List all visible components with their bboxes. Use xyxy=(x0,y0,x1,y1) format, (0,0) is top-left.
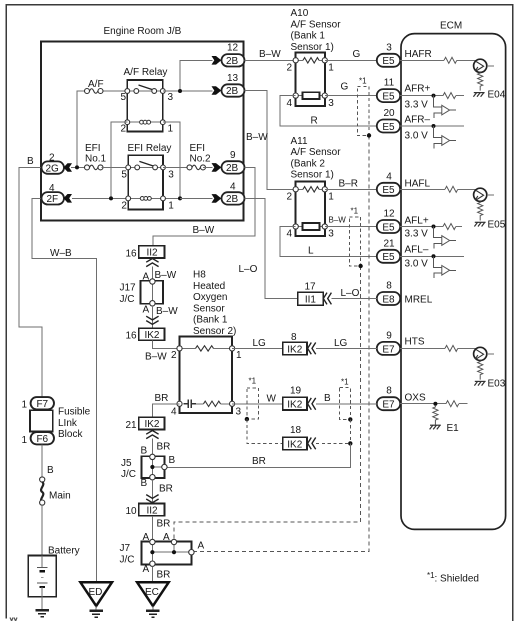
svg-text:*1: *1 xyxy=(249,377,257,386)
pin E5-3 HAFR xyxy=(377,42,400,67)
svg-text:IK2: IK2 xyxy=(287,400,302,411)
wire L-O II1 to E8 xyxy=(332,298,377,300)
chevrons II1 (left) xyxy=(323,293,331,305)
svg-text:10: 10 xyxy=(126,506,138,517)
wire G A10 pin1 to HAFR xyxy=(325,59,377,61)
resistor AFR+ xyxy=(443,93,456,99)
shield dashed IK2-18 to drain xyxy=(316,442,350,444)
svg-text:AFL+: AFL+ xyxy=(405,216,429,227)
resistor to E03 xyxy=(478,361,483,380)
pin E8-8 MREL xyxy=(377,281,400,306)
svg-text:Sensor: Sensor xyxy=(193,303,225,314)
label Fusible Link Block xyxy=(58,407,91,441)
svg-text:3: 3 xyxy=(328,98,334,109)
ground triangle ED xyxy=(80,582,112,606)
svg-text:AFL–: AFL– xyxy=(405,245,429,256)
wire J7 to EC xyxy=(151,566,153,582)
wire EFI row to 2B4 xyxy=(180,197,213,199)
comparator AFL- xyxy=(434,256,457,278)
svg-text:L: L xyxy=(308,246,314,257)
pin E5-12 AFL+ xyxy=(377,209,400,234)
svg-text:L–O: L–O xyxy=(239,264,258,275)
connector IK2-8 xyxy=(283,342,307,355)
svg-text:BR: BR xyxy=(157,519,171,530)
svg-text:W–B: W–B xyxy=(50,248,72,259)
svg-text:E5: E5 xyxy=(382,56,395,67)
svg-text:4: 4 xyxy=(287,229,293,240)
wire HTS internal xyxy=(400,347,476,349)
svg-text:1: 1 xyxy=(236,350,242,361)
svg-text:BR: BR xyxy=(155,393,169,404)
svg-text:20: 20 xyxy=(383,108,395,119)
wire L A11 pin4 to AFL- xyxy=(280,227,376,257)
svg-text:3.0 V: 3.0 V xyxy=(405,131,429,142)
A/F sensor A11 box xyxy=(296,182,325,236)
battery xyxy=(28,556,56,597)
svg-text:B–W: B–W xyxy=(145,352,167,363)
svg-text:II2: II2 xyxy=(146,248,158,259)
svg-text:8: 8 xyxy=(386,386,392,397)
svg-text:4: 4 xyxy=(386,171,392,182)
shield dot OXS-3 xyxy=(348,441,352,445)
svg-text:II2: II2 xyxy=(146,505,158,516)
junction dot xyxy=(178,89,182,93)
label J7 J/C xyxy=(120,543,135,565)
wire J17 to IK2-16 xyxy=(151,306,153,328)
svg-text:5: 5 xyxy=(121,92,127,103)
connector IK2-19 xyxy=(283,397,307,410)
svg-text:18: 18 xyxy=(290,425,302,436)
svg-text:Main: Main xyxy=(49,491,71,502)
wire L-O 2B4 to II1 xyxy=(245,198,298,298)
svg-text:LG: LG xyxy=(253,338,267,349)
fuse EFI No.1 xyxy=(85,165,104,170)
chevrons below IK2-21 (up) xyxy=(146,431,158,439)
svg-text:3: 3 xyxy=(168,92,174,103)
svg-text:A/F: A/F xyxy=(88,79,104,90)
svg-text:12: 12 xyxy=(383,209,395,220)
A11 sensor element xyxy=(303,223,320,230)
svg-text:1: 1 xyxy=(328,62,334,73)
ground E05 xyxy=(474,222,485,226)
svg-text:5: 5 xyxy=(121,170,127,181)
svg-text:3: 3 xyxy=(168,170,174,181)
svg-text:B–W: B–W xyxy=(246,132,268,143)
svg-text:Fusible: Fusible xyxy=(58,407,91,418)
svg-text:IK2: IK2 xyxy=(287,439,302,450)
svg-text:Sensor 2): Sensor 2) xyxy=(193,326,236,337)
fusible link block body xyxy=(30,410,53,431)
A11 pin circles xyxy=(293,187,327,229)
svg-text:E1: E1 xyxy=(447,423,460,434)
ground E03 xyxy=(474,381,485,385)
chevrons IK2-19 (left) xyxy=(308,398,316,410)
connector 2F xyxy=(42,192,73,205)
wire IK2-21 to J5 xyxy=(151,439,153,457)
wire AFL+ internal xyxy=(400,226,462,228)
svg-text:9: 9 xyxy=(386,330,392,341)
svg-text:4: 4 xyxy=(171,406,177,417)
svg-text:(Bank 1: (Bank 1 xyxy=(193,315,228,326)
svg-text:16: 16 xyxy=(126,248,138,259)
wire branch up to 2B12 xyxy=(180,60,213,91)
svg-text:Engine Room J/B: Engine Room J/B xyxy=(104,26,182,37)
pin E7-9 HTS xyxy=(377,330,400,355)
svg-text:BR: BR xyxy=(157,442,171,453)
svg-text:ED: ED xyxy=(89,587,103,598)
svg-text:1: 1 xyxy=(22,400,28,411)
svg-text:J/C: J/C xyxy=(120,294,135,305)
svg-text:A: A xyxy=(198,541,205,552)
H8 internal wires xyxy=(180,348,233,403)
svg-text:BR: BR xyxy=(159,484,173,495)
wire IK2-16 to H8 pin2 xyxy=(152,340,179,348)
wire G A10 pin3 to AFR+ xyxy=(325,95,377,97)
svg-text:BR: BR xyxy=(252,456,266,467)
svg-text:H8: H8 xyxy=(193,270,206,281)
wire relay A/F pin1 down xyxy=(163,122,180,198)
wire W-B from 2F to ED ground xyxy=(32,198,96,582)
svg-text:B: B xyxy=(47,465,54,476)
label J5 J/C xyxy=(121,458,136,480)
svg-text:3: 3 xyxy=(236,406,242,417)
svg-text:BR: BR xyxy=(157,570,171,581)
svg-text:2B: 2B xyxy=(226,163,239,174)
svg-text:B–W: B–W xyxy=(329,216,347,225)
comparator AFR- xyxy=(434,126,457,148)
wire F6 to Main xyxy=(41,444,43,477)
svg-text:E05: E05 xyxy=(488,219,506,230)
svg-text:B–W: B–W xyxy=(193,225,215,236)
H8 element resistor xyxy=(204,401,221,406)
ground (EC) xyxy=(146,611,160,617)
svg-text:J/C: J/C xyxy=(121,469,136,480)
svg-text:F6: F6 xyxy=(36,434,48,445)
svg-text:3.3 V: 3.3 V xyxy=(405,100,429,111)
pin E5-4 HAFL xyxy=(377,171,400,196)
connector mate chevrons (up) xyxy=(146,259,158,267)
wire II2-10 to J7 xyxy=(151,516,153,542)
svg-text:No.1: No.1 xyxy=(85,154,107,165)
svg-text:3.3 V: 3.3 V xyxy=(405,229,429,240)
svg-text:: Shielded: : Shielded xyxy=(435,574,479,585)
svg-text:A/F Relay: A/F Relay xyxy=(124,67,168,78)
svg-text:B: B xyxy=(324,393,331,404)
connector 2B 13 xyxy=(212,84,245,97)
svg-text:E5: E5 xyxy=(382,185,395,196)
wire B-W 2B13 to A11 pin2 xyxy=(245,91,296,190)
ground triangle EC xyxy=(137,582,169,606)
fuse A/F xyxy=(85,89,104,94)
svg-text:21: 21 xyxy=(126,420,138,431)
svg-text:B: B xyxy=(141,478,148,489)
connector II1-17 xyxy=(298,292,324,306)
svg-text:No.2: No.2 xyxy=(190,154,212,165)
connector 2B 9 xyxy=(212,161,245,174)
svg-text:11: 11 xyxy=(384,78,395,89)
svg-text:13: 13 xyxy=(227,73,239,84)
svg-text:Heated: Heated xyxy=(193,281,225,292)
svg-text:A11: A11 xyxy=(291,136,308,147)
svg-text:Block: Block xyxy=(58,429,83,440)
shield box OXS-1 (*1) xyxy=(247,388,259,419)
pin E5-20 AFR- xyxy=(377,108,400,133)
H8 pin numbers xyxy=(171,350,242,418)
wire B IK2-19 to E7 xyxy=(316,403,377,405)
svg-text:E7: E7 xyxy=(382,400,395,411)
svg-text:IK2: IK2 xyxy=(287,344,302,355)
svg-text:HTS: HTS xyxy=(405,337,425,348)
ground E04 xyxy=(473,93,484,97)
svg-text:B–W: B–W xyxy=(259,49,281,60)
wire relay A/F pin2 down xyxy=(111,122,127,198)
relay EFI coil row xyxy=(111,196,180,201)
svg-text:IK2: IK2 xyxy=(144,419,159,430)
svg-text:J5: J5 xyxy=(121,458,132,469)
junction dot left xyxy=(109,196,113,200)
svg-text:2: 2 xyxy=(287,191,293,202)
ground (battery) xyxy=(35,610,49,616)
H8 heater resistor xyxy=(196,346,214,351)
relay A/F coil row xyxy=(125,120,165,125)
svg-text:B: B xyxy=(141,446,148,457)
resistor OXS xyxy=(446,401,459,407)
svg-text:E7: E7 xyxy=(382,344,395,355)
connector IK2-18 xyxy=(283,437,307,450)
svg-text:F7: F7 xyxy=(36,399,48,410)
wire B from 2G to fusible link xyxy=(19,168,42,398)
svg-text:2B: 2B xyxy=(226,194,239,205)
wire BR H8 pin4 to IK2-21 xyxy=(152,404,179,418)
wire II2 to J17 xyxy=(151,267,153,281)
ground (ED) xyxy=(89,611,103,617)
shield dashed between dots xyxy=(349,419,351,443)
wire W H8 pin3 to IK2-19 xyxy=(232,403,283,405)
pin E5-11 AFR+ xyxy=(377,78,400,103)
connector 2B 12 xyxy=(212,54,245,67)
connector IK2-21 xyxy=(139,417,165,430)
svg-text:E8: E8 xyxy=(382,294,395,305)
svg-text:J17: J17 xyxy=(120,283,137,294)
shield box A10 (*1) xyxy=(358,86,370,135)
relay A/F box xyxy=(127,80,163,132)
wire fuse to EFI relay pin5 xyxy=(102,166,129,168)
resistor to E04 xyxy=(478,72,483,90)
svg-text:2G: 2G xyxy=(46,163,60,174)
wire ED to ground xyxy=(95,606,97,610)
svg-text:EFI: EFI xyxy=(85,143,101,154)
H8 label xyxy=(193,270,236,338)
wire HAFL internal xyxy=(400,188,476,190)
svg-text:B–W: B–W xyxy=(155,270,177,281)
svg-text:2: 2 xyxy=(121,124,127,135)
fusible link block F6 xyxy=(31,432,54,445)
svg-text:9: 9 xyxy=(230,150,236,161)
svg-text:E5: E5 xyxy=(382,252,395,263)
svg-text:IK2: IK2 xyxy=(144,330,159,341)
fusible link Main xyxy=(40,477,45,505)
svg-text:LG: LG xyxy=(334,338,348,349)
junction dot AFR+ xyxy=(432,94,436,98)
svg-text:A: A xyxy=(143,305,150,316)
chevrons IK2-18 (left) xyxy=(308,438,316,450)
svg-text:A10: A10 xyxy=(291,8,309,19)
svg-text:*1: *1 xyxy=(341,378,349,387)
wire EC to ground xyxy=(152,606,154,610)
wire Main to battery xyxy=(41,505,43,555)
svg-text:W: W xyxy=(267,394,277,405)
ECM box xyxy=(401,34,506,530)
svg-text:(Bank 1: (Bank 1 xyxy=(291,31,326,42)
svg-text:16: 16 xyxy=(126,331,138,342)
wire AFR+ internal xyxy=(400,95,464,97)
svg-text:II1: II1 xyxy=(305,295,317,306)
svg-text:B: B xyxy=(27,156,34,167)
svg-text:17: 17 xyxy=(305,282,317,293)
svg-text:Oxygen: Oxygen xyxy=(193,292,227,303)
svg-text:L–O: L–O xyxy=(341,288,360,299)
A10 label xyxy=(291,8,342,53)
A11 label xyxy=(291,136,342,181)
wire LG IK2-8 to E7 xyxy=(316,347,377,349)
junction dot OXS xyxy=(433,402,437,406)
svg-text:B–W: B–W xyxy=(156,306,178,317)
svg-text:MREL: MREL xyxy=(405,294,433,305)
label J17 J/C xyxy=(120,283,137,305)
relay EFI box xyxy=(128,155,163,209)
svg-text:EC: EC xyxy=(145,587,159,598)
svg-text:J/C: J/C xyxy=(120,554,135,565)
shield A11 drain dashed down to J7 xyxy=(174,266,361,541)
svg-text:2B: 2B xyxy=(226,86,239,97)
svg-text:A: A xyxy=(143,564,150,575)
wire BR shield drain to J5 xyxy=(165,443,350,467)
wire J5 to II2-10 xyxy=(151,480,153,504)
transistor driver Q (HAFL) xyxy=(474,188,495,201)
resistor AFL+ xyxy=(443,224,456,230)
fuse EFI No.2 xyxy=(187,165,206,170)
svg-text:E5: E5 xyxy=(382,92,395,103)
svg-text:B–R: B–R xyxy=(339,179,358,190)
comparator AFR+ xyxy=(434,96,457,118)
svg-text:G: G xyxy=(341,82,349,93)
svg-text:EFI: EFI xyxy=(190,143,206,154)
transistor driver Q (HTS) xyxy=(474,347,495,360)
svg-text:LInk: LInk xyxy=(58,418,78,429)
svg-text:E03: E03 xyxy=(488,378,506,389)
svg-text:8: 8 xyxy=(291,332,297,343)
comparator AFL+ xyxy=(434,227,457,249)
wire B-W 2B12 to A10 pin2 xyxy=(245,59,296,61)
svg-text:*1: *1 xyxy=(351,207,359,216)
svg-text:E04: E04 xyxy=(488,90,506,101)
junction dot AFL+ xyxy=(432,225,436,229)
svg-text:3: 3 xyxy=(328,229,334,240)
svg-text:AFR+: AFR+ xyxy=(405,84,431,95)
resistor HAFR xyxy=(444,57,457,63)
wire EFI relay pin3 to fuse xyxy=(163,166,188,168)
wire 2G to fuse xyxy=(71,166,86,168)
H8 capacitor xyxy=(184,399,197,408)
svg-text:HAFL: HAFL xyxy=(405,179,431,190)
svg-text:1: 1 xyxy=(168,124,174,135)
svg-text:AFR–: AFR– xyxy=(405,115,431,126)
svg-text:2: 2 xyxy=(287,62,293,73)
svg-text:19: 19 xyxy=(290,385,302,396)
svg-text:2: 2 xyxy=(171,350,177,361)
A/F sensor A10 box xyxy=(296,53,325,106)
shield dot A11 xyxy=(358,264,362,268)
shield box OXS-2 (*1) xyxy=(340,388,351,420)
wire OXS internal xyxy=(400,403,467,405)
wire HAFR internal xyxy=(400,59,476,61)
shield dot OXS-1 xyxy=(245,417,249,421)
transistor driver Q (HAFR) xyxy=(474,59,495,72)
svg-text:12: 12 xyxy=(227,43,239,54)
A10 internal wires xyxy=(296,60,325,95)
wire relay A/F pin3 to 2B13 xyxy=(163,90,213,92)
svg-text:Sensor 1): Sensor 1) xyxy=(291,42,334,53)
svg-text:3: 3 xyxy=(386,42,392,53)
oxygen sensor H8 box xyxy=(180,336,233,413)
shield box A11 (*1) xyxy=(349,217,360,266)
A10 pin circles xyxy=(293,58,327,98)
svg-text:2F: 2F xyxy=(47,194,59,205)
fusible link block F7 xyxy=(31,397,54,410)
connector II2-10 xyxy=(139,504,165,517)
junction dot AFL- xyxy=(432,254,436,258)
svg-text:2B: 2B xyxy=(226,56,239,67)
A10 heater resistor xyxy=(303,58,319,63)
resistor HAFL xyxy=(445,186,458,192)
resistor HTS xyxy=(445,345,458,351)
svg-text:21: 21 xyxy=(383,238,395,249)
svg-text:A/F Sensor: A/F Sensor xyxy=(291,147,342,158)
relay A/F contact row xyxy=(125,85,165,93)
A10 sensor element xyxy=(303,92,320,99)
svg-text:ECM: ECM xyxy=(440,21,462,32)
A11 internal wires xyxy=(296,189,325,226)
ground E1 xyxy=(430,425,441,429)
connector II2-16 xyxy=(139,246,165,259)
resistor to E1 xyxy=(433,406,438,425)
svg-text:OXS: OXS xyxy=(405,393,426,404)
connector IK2-16 xyxy=(139,328,165,341)
wire B-R A11 pin1 to HAFL xyxy=(325,188,377,190)
svg-text:*1: *1 xyxy=(359,77,367,86)
chevrons IK2-8 (left) xyxy=(308,343,316,355)
svg-text:2: 2 xyxy=(49,153,55,164)
junction J5 J/C xyxy=(142,454,167,480)
pin E5-21 AFL- xyxy=(377,238,400,263)
svg-text:EFI Relay: EFI Relay xyxy=(128,143,172,154)
A11 pin numbers xyxy=(287,191,335,239)
wire LG H8 pin1 to IK2-8 xyxy=(232,347,283,349)
svg-text:1: 1 xyxy=(22,435,28,446)
wire B-W 2B9 to II2 xyxy=(153,167,255,245)
svg-text:1: 1 xyxy=(328,191,334,202)
svg-text:1: 1 xyxy=(168,201,174,212)
resistor to E05 xyxy=(478,201,483,220)
H8 pin circles xyxy=(177,346,235,407)
shield A10 drain dashed down to J7 xyxy=(192,136,369,552)
connector 2B 4 xyxy=(212,192,245,205)
svg-text:B: B xyxy=(169,455,176,466)
wire battery to ground xyxy=(41,597,43,610)
connector mate chevrons (down) xyxy=(146,316,158,324)
junction J17 J/C xyxy=(140,279,163,306)
corner artifact xyxy=(10,618,17,621)
